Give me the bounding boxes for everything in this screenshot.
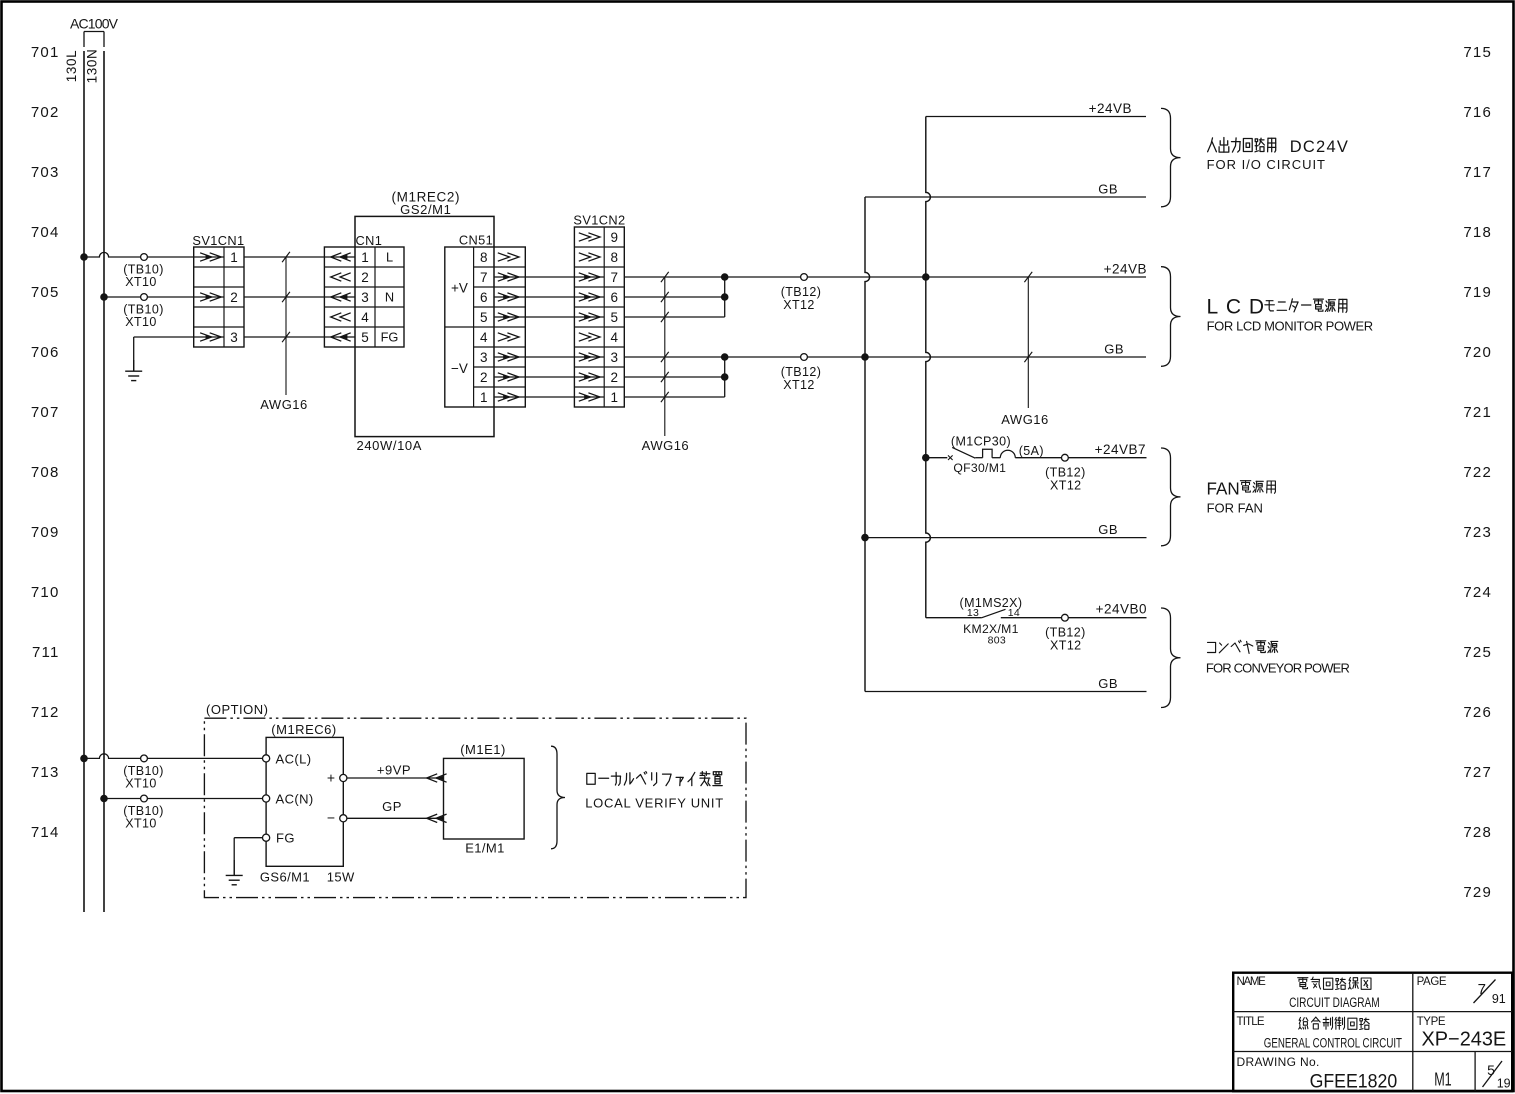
power supply unit GS6/M1 (M1REC6) box bbox=[260, 722, 355, 885]
wire +24VB7 FAN bbox=[1068, 442, 1146, 458]
svg-text:729: 729 bbox=[1463, 884, 1492, 901]
wire FG to ground bbox=[234, 838, 262, 876]
svg-text:4: 4 bbox=[480, 330, 488, 345]
wire SV1CN1-1 to CN1-1 bbox=[244, 256, 324, 258]
svg-text:718: 718 bbox=[1463, 224, 1492, 241]
junction GB bus at FAN GB line bbox=[861, 534, 869, 542]
svg-text:719: 719 bbox=[1463, 284, 1492, 301]
wire CN51-7 to SV1CN2-7 bbox=[525, 276, 574, 278]
wire +24VB0 conveyor bbox=[1068, 602, 1147, 618]
brace local verify unit bbox=[551, 746, 565, 849]
wire 130N to terminal XT10 (N) bbox=[104, 296, 194, 298]
svg-text:(5A): (5A) bbox=[1019, 444, 1044, 458]
svg-text:4: 4 bbox=[610, 330, 618, 345]
svg-text:715: 715 bbox=[1463, 44, 1492, 61]
wire 130N to AC(N) bbox=[104, 798, 262, 800]
svg-text:XT10: XT10 bbox=[125, 817, 156, 831]
bus GB vertical bbox=[865, 197, 870, 692]
svg-text:+V: +V bbox=[451, 281, 468, 296]
svg-text:2: 2 bbox=[230, 290, 238, 305]
svg-text:GS2/M1: GS2/M1 bbox=[400, 202, 451, 217]
svg-text:19: 19 bbox=[1497, 1077, 1511, 1091]
svg-text:717: 717 bbox=[1463, 164, 1492, 181]
power supply unit GS2/M1 (M1REC2) box bbox=[355, 190, 494, 454]
left line number labels 701-714 bbox=[31, 44, 60, 841]
svg-text:2: 2 bbox=[361, 270, 369, 285]
svg-text:706: 706 bbox=[31, 344, 60, 361]
connector SV1CN1 bbox=[192, 233, 244, 347]
svg-text:130N: 130N bbox=[85, 49, 100, 84]
terminal (TB10) XT10 lower bbox=[123, 294, 164, 329]
svg-text:5: 5 bbox=[610, 310, 618, 325]
svg-text:DC24V: DC24V bbox=[1290, 138, 1348, 156]
svg-text:4: 4 bbox=[361, 310, 369, 325]
svg-text:AWG16: AWG16 bbox=[1001, 412, 1049, 427]
bus +24VB vertical bbox=[926, 117, 931, 618]
wire +9VP bbox=[347, 763, 447, 783]
svg-text:FG: FG bbox=[276, 831, 295, 846]
svg-text:CN51: CN51 bbox=[459, 233, 493, 248]
connector CN51 bbox=[445, 233, 526, 408]
junction -V tie pin2 bbox=[721, 373, 729, 381]
svg-text:PAGE: PAGE bbox=[1417, 976, 1447, 988]
svg-text:QF30/M1: QF30/M1 bbox=[953, 461, 1006, 475]
wire CN51-2 to SV1CN2-2 bbox=[525, 376, 574, 378]
svg-text:726: 726 bbox=[1463, 704, 1492, 721]
connector SV1CN2 bbox=[573, 213, 625, 408]
svg-text:710: 710 bbox=[31, 584, 60, 601]
wire 130L to terminal XT10 (L) bbox=[84, 252, 194, 257]
wire CN51-1 to SV1CN2-1 bbox=[525, 396, 574, 398]
wire -V out of SV1CN2-3 (GB feed) bbox=[624, 356, 1146, 358]
svg-text:FG: FG bbox=[381, 330, 399, 345]
terminal (TB12) XT12 on +24VB7 bbox=[1045, 454, 1086, 492]
svg-text:2: 2 bbox=[610, 370, 618, 385]
svg-text:6: 6 bbox=[480, 290, 488, 305]
svg-text:716: 716 bbox=[1463, 104, 1492, 121]
svg-text:8: 8 bbox=[610, 250, 618, 265]
svg-text:+24VB0: +24VB0 bbox=[1096, 602, 1147, 617]
svg-text:LCD: LCD bbox=[1207, 296, 1265, 319]
wire +V out of SV1CN2-6 bbox=[624, 296, 724, 298]
cable AWG16 callout right bbox=[1001, 272, 1049, 427]
wire CN51-3 to SV1CN2-3 bbox=[525, 356, 574, 358]
junction -V tie pin3 bbox=[721, 353, 729, 361]
page number 7/91 bbox=[1474, 980, 1506, 1007]
brace LCD monitor group bbox=[1161, 267, 1181, 367]
svg-text:(TB12): (TB12) bbox=[781, 285, 822, 299]
sheet number 5/19 bbox=[1483, 1061, 1511, 1091]
svg-text:130L: 130L bbox=[64, 50, 79, 82]
svg-text:(TB12): (TB12) bbox=[1045, 466, 1086, 480]
wire SV1CN1-2 to CN1-3 bbox=[244, 296, 324, 298]
brace conveyor group bbox=[1161, 608, 1181, 708]
wire +V out of SV1CN2-7 (+24VB feed) bbox=[624, 276, 1146, 278]
terminal (TB10) XT10 AC(L) bbox=[123, 755, 164, 791]
wire SV1CN1 pin3 to ground bbox=[134, 337, 194, 371]
svg-text:7: 7 bbox=[480, 270, 488, 285]
svg-text:722: 722 bbox=[1463, 464, 1492, 481]
label conveyor group bbox=[1206, 640, 1350, 675]
svg-text:N: N bbox=[385, 290, 394, 305]
svg-text:XP−243E: XP−243E bbox=[1422, 1029, 1507, 1051]
junction +24VB bus at FAN feed bbox=[922, 454, 930, 462]
svg-text:L: L bbox=[386, 250, 393, 265]
junction +V tie pin7 bbox=[721, 273, 729, 281]
svg-text:+24VB: +24VB bbox=[1089, 101, 1132, 116]
svg-text:XT12: XT12 bbox=[783, 378, 814, 392]
svg-text:727: 727 bbox=[1463, 764, 1492, 781]
junction +24VB bus at LCD line bbox=[922, 273, 930, 281]
terminal (TB12) XT12 on +24VB0 bbox=[1045, 614, 1086, 652]
svg-text:XT12: XT12 bbox=[1050, 479, 1081, 493]
svg-text:8: 8 bbox=[480, 250, 488, 265]
svg-text:5: 5 bbox=[480, 310, 488, 325]
ground symbol option bbox=[226, 860, 243, 885]
cable AWG16 callout left bbox=[260, 252, 308, 412]
svg-text:705: 705 bbox=[31, 284, 60, 301]
svg-text:720: 720 bbox=[1463, 344, 1492, 361]
wire -V out of SV1CN2-1 with tie bbox=[624, 357, 724, 397]
svg-text:1: 1 bbox=[610, 390, 618, 405]
svg-text:CN1: CN1 bbox=[356, 233, 383, 248]
svg-text:FOR LCD MONITOR POWER: FOR LCD MONITOR POWER bbox=[1207, 318, 1374, 333]
svg-text:XT10: XT10 bbox=[125, 315, 156, 329]
verify unit E1/M1 (M1E1) box bbox=[444, 742, 525, 856]
svg-text:3: 3 bbox=[480, 350, 488, 365]
svg-text:(M1E1): (M1E1) bbox=[460, 742, 506, 757]
svg-text:−: − bbox=[327, 810, 335, 826]
svg-text:725: 725 bbox=[1463, 644, 1492, 661]
label I/O circuit group bbox=[1207, 138, 1348, 172]
svg-text:AC(N): AC(N) bbox=[276, 792, 314, 807]
junction +V tie pin6 bbox=[721, 293, 729, 301]
svg-text:XT12: XT12 bbox=[1050, 639, 1081, 653]
contactor contact KM2X/M1 (M1MS2X) 13-14 bbox=[926, 596, 1062, 647]
circuit protector QF30/M1 (M1CP30) 5A bbox=[926, 435, 1062, 475]
svg-text:1: 1 bbox=[230, 250, 238, 265]
svg-text:XT10: XT10 bbox=[125, 777, 156, 791]
svg-text:5: 5 bbox=[361, 330, 369, 345]
option enclosure box bbox=[204, 702, 746, 898]
svg-text:7: 7 bbox=[1478, 981, 1486, 998]
svg-text:707: 707 bbox=[31, 404, 60, 421]
svg-text:LOCAL VERIFY UNIT: LOCAL VERIFY UNIT bbox=[585, 796, 723, 811]
svg-text:GENERAL CONTROL CIRCUIT: GENERAL CONTROL CIRCUIT bbox=[1264, 1036, 1402, 1051]
svg-text:+24VB: +24VB bbox=[1104, 262, 1147, 277]
svg-text:E1/M1: E1/M1 bbox=[465, 841, 505, 856]
svg-text:M1: M1 bbox=[1434, 1070, 1452, 1090]
title 総合制御回路 GENERAL CONTROL CIRCUIT bbox=[1264, 1017, 1402, 1050]
svg-text:FOR CONVEYOR POWER: FOR CONVEYOR POWER bbox=[1206, 660, 1350, 675]
net AC100V label and bracket bbox=[70, 16, 119, 48]
wire SV1CN1-3 to CN1-5 bbox=[244, 336, 324, 338]
junction on 130L line 713 bbox=[80, 755, 88, 763]
svg-text:711: 711 bbox=[32, 644, 60, 661]
svg-text:13: 13 bbox=[967, 607, 979, 619]
wire GB I/O circuit bbox=[865, 182, 1146, 198]
svg-text:14: 14 bbox=[1008, 607, 1020, 619]
title block bbox=[1233, 973, 1512, 1091]
svg-text:(OPTION): (OPTION) bbox=[206, 702, 269, 717]
svg-text:724: 724 bbox=[1463, 584, 1492, 601]
svg-text:AWG16: AWG16 bbox=[642, 438, 690, 453]
right line number labels 715-729 bbox=[1463, 44, 1492, 901]
svg-text:NAME: NAME bbox=[1237, 976, 1267, 988]
svg-text:1: 1 bbox=[361, 250, 369, 265]
svg-text:6: 6 bbox=[610, 290, 618, 305]
svg-text:GB: GB bbox=[1098, 182, 1118, 197]
svg-text:3: 3 bbox=[361, 290, 369, 305]
svg-text:91: 91 bbox=[1492, 992, 1506, 1006]
svg-text:+24VB7: +24VB7 bbox=[1095, 442, 1146, 457]
svg-text:FOR I/O CIRCUIT: FOR I/O CIRCUIT bbox=[1207, 157, 1325, 172]
svg-text:709: 709 bbox=[31, 524, 60, 541]
wire GP bbox=[347, 799, 447, 823]
wire GB conveyor bbox=[865, 676, 1147, 692]
junction on 130N line 713b bbox=[100, 795, 108, 803]
svg-text:(M1CP30): (M1CP30) bbox=[951, 435, 1011, 449]
svg-text:XT12: XT12 bbox=[783, 298, 814, 312]
svg-text:240W/10A: 240W/10A bbox=[357, 438, 423, 453]
terminal (TB12) XT12 on GB bbox=[781, 354, 822, 392]
svg-text:TYPE: TYPE bbox=[1417, 1016, 1446, 1028]
svg-text:FAN: FAN bbox=[1207, 478, 1240, 498]
ground symbol left bbox=[125, 360, 142, 381]
junction GB bus at LCD GB line bbox=[861, 353, 869, 361]
svg-text:GB: GB bbox=[1098, 676, 1118, 691]
svg-text:(TB12): (TB12) bbox=[1045, 626, 1086, 640]
svg-text:15W: 15W bbox=[327, 870, 355, 885]
brace FAN group bbox=[1161, 448, 1181, 546]
brace I/O circuit group bbox=[1161, 108, 1181, 206]
svg-text:703: 703 bbox=[31, 164, 60, 181]
wire +24VB I/O circuit bbox=[926, 101, 1146, 117]
svg-text:AC(L): AC(L) bbox=[276, 752, 312, 767]
svg-text:GP: GP bbox=[382, 799, 402, 814]
label FAN group bbox=[1207, 478, 1276, 515]
label LCD monitor group bbox=[1207, 296, 1374, 334]
svg-text:9: 9 bbox=[610, 230, 618, 245]
svg-text:701: 701 bbox=[31, 44, 60, 61]
svg-text:(TB12): (TB12) bbox=[781, 365, 822, 379]
svg-text:AWG16: AWG16 bbox=[260, 397, 308, 412]
connector CN1 bbox=[324, 233, 404, 347]
svg-text:CIRCUIT DIAGRAM: CIRCUIT DIAGRAM bbox=[1289, 995, 1380, 1010]
title name 電気回路線図 CIRCUIT DIAGRAM bbox=[1289, 977, 1380, 1010]
wire +V out of SV1CN2-5 with tie bbox=[624, 277, 724, 317]
bus 130L bbox=[64, 50, 84, 912]
wire CN51-6 to SV1CN2-6 bbox=[525, 296, 574, 298]
svg-text:7: 7 bbox=[610, 270, 618, 285]
wire 130L to AC(L) bbox=[84, 754, 262, 759]
wire -V out of SV1CN2-2 bbox=[624, 376, 724, 378]
svg-text:SV1CN1: SV1CN1 bbox=[192, 233, 244, 248]
wire GB FAN bbox=[865, 522, 1147, 538]
svg-text:721: 721 bbox=[1463, 404, 1492, 421]
svg-text:708: 708 bbox=[31, 464, 60, 481]
svg-text:704: 704 bbox=[31, 224, 60, 241]
svg-text:AC100V: AC100V bbox=[70, 16, 119, 32]
svg-text:1: 1 bbox=[480, 390, 488, 405]
cable AWG16 callout middle bbox=[642, 272, 690, 453]
junction on 130N line 705 bbox=[100, 293, 108, 301]
svg-text:+9VP: +9VP bbox=[377, 763, 411, 778]
svg-text:TITLE: TITLE bbox=[1237, 1016, 1265, 1028]
svg-text:2: 2 bbox=[480, 370, 488, 385]
svg-text:GFEE1820: GFEE1820 bbox=[1310, 1072, 1398, 1093]
svg-text:702: 702 bbox=[31, 104, 60, 121]
terminal (TB12) XT12 on +24VB bbox=[781, 274, 822, 312]
svg-text:+: + bbox=[327, 770, 335, 786]
svg-text:714: 714 bbox=[31, 824, 60, 841]
svg-text:3: 3 bbox=[610, 350, 618, 365]
svg-text:FOR FAN: FOR FAN bbox=[1207, 501, 1263, 516]
junction on 130L line 704 bbox=[80, 253, 88, 261]
svg-text:723: 723 bbox=[1463, 524, 1492, 541]
bus 130N bbox=[85, 49, 105, 912]
svg-text:728: 728 bbox=[1463, 824, 1492, 841]
svg-text:SV1CN2: SV1CN2 bbox=[573, 213, 625, 228]
svg-text:(M1REC6): (M1REC6) bbox=[271, 722, 336, 737]
svg-text:−V: −V bbox=[451, 361, 468, 376]
svg-text:3: 3 bbox=[230, 330, 238, 345]
svg-text:GB: GB bbox=[1098, 522, 1118, 537]
svg-text:712: 712 bbox=[31, 704, 60, 721]
svg-text:803: 803 bbox=[988, 635, 1006, 647]
svg-text:DRAWING No.: DRAWING No. bbox=[1237, 1055, 1320, 1069]
terminal (TB10) XT10 upper bbox=[123, 254, 164, 289]
terminal (TB10) XT10 AC(N) bbox=[123, 795, 164, 830]
svg-text:713: 713 bbox=[31, 764, 60, 781]
svg-text:GS6/M1: GS6/M1 bbox=[260, 870, 310, 885]
wire CN51-5 to SV1CN2-5 bbox=[525, 316, 574, 318]
svg-text:GB: GB bbox=[1104, 342, 1124, 357]
label local verify unit bbox=[585, 772, 723, 811]
svg-text:XT10: XT10 bbox=[125, 275, 156, 289]
